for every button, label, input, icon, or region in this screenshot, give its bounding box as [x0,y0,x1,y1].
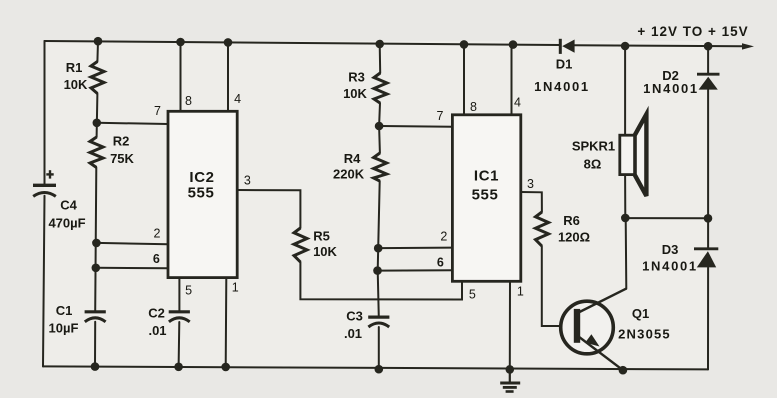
capacitor C1 [85,312,106,322]
wire: D3 branch lower to bottom rail [707,268,709,370]
wire: IC2 pin 4 [227,42,229,111]
node: IC1 pin 2 junction [374,244,383,253]
node: bottom rail at C3 [375,365,384,374]
node: top rail at D2 [704,42,713,51]
wire: IC2 pin 6 [96,267,168,270]
svg-text:1: 1 [232,281,239,295]
svg-text:R3: R3 [348,70,365,85]
node: speaker bottom / collector [621,214,630,223]
svg-text:D3: D3 [662,242,679,257]
wire: left rail lower [43,196,45,367]
svg-text:4: 4 [234,92,241,106]
speaker SPKR1 [620,114,647,196]
node: IC2 pin 6 junction [92,264,101,273]
svg-text:R1: R1 [66,60,83,75]
svg-text:7: 7 [437,109,444,123]
wire: IC2 pin 3 to R5 top [237,190,300,228]
svg-text:120Ω: 120Ω [558,230,590,245]
svg-text:C3: C3 [346,309,363,324]
svg-text:R5: R5 [313,229,330,244]
node: top rail at IC1 pin 4 [509,40,518,49]
svg-text:1N4001: 1N4001 [534,79,590,94]
svg-text:.01: .01 [344,326,362,341]
transistor Q1 2N3055 [561,289,627,370]
node: top rail at IC1 pin 8 [460,40,469,49]
op IC2 555 timer body [168,111,237,277]
wire: speaker branch upper [624,46,626,136]
resistor R3 [374,73,387,103]
node: bottom rail at ground [506,365,515,374]
wire: D2 branch upper [707,46,709,74]
svg-text:6: 6 [153,252,160,266]
svg-text:R2: R2 [113,133,130,148]
svg-text:2N3055: 2N3055 [618,327,671,342]
wire: speaker node to D2/D3 rail [625,217,708,219]
svg-text:C1: C1 [56,303,73,318]
svg-text:8: 8 [470,100,477,114]
svg-text:3: 3 [527,177,534,191]
node: D2/D3 junction [704,214,713,223]
svg-text:3: 3 [244,174,251,188]
svg-text:R4: R4 [344,151,361,166]
svg-text:C4: C4 [60,198,77,213]
svg-text:10K: 10K [313,244,337,259]
svg-text:1N4001: 1N4001 [643,81,699,96]
op IC1 555 timer body [452,115,520,281]
resistor R1 [91,62,104,94]
wire: IC1 pin 1 [509,281,511,369]
svg-text:1: 1 [517,285,524,299]
svg-text:D1: D1 [556,57,573,72]
svg-text:555: 555 [472,187,499,204]
wire: top supply rail (right of D1) [575,45,743,46]
svg-text:.01: .01 [148,323,166,338]
svg-text:8: 8 [185,94,192,108]
wire: IC1 pin 7 [379,125,452,128]
wire: IC1 pin 3 to R6 top [521,192,542,212]
resistor R5 [294,228,307,262]
svg-text:C2: C2 [148,306,165,321]
ground symbol [500,369,520,391]
capacitor C3 [368,317,389,327]
wire: IC2 pin 8 [180,42,182,112]
svg-text:10K: 10K [343,86,367,101]
diode D3 [694,249,718,268]
node: top rail at R3 [375,40,384,49]
svg-text:2: 2 [154,227,161,241]
svg-text:75K: 75K [110,151,134,166]
svg-text:R6: R6 [563,213,580,228]
node: top rail at R1 [94,37,103,46]
wire: R1/R2/C1 branch segments [96,41,99,61]
wire: IC1 pin 6 [378,269,453,271]
svg-text:10K: 10K [64,77,88,92]
svg-text:8Ω: 8Ω [584,157,602,172]
svg-text:IC2: IC2 [189,169,214,186]
svg-text:IC1: IC1 [474,168,499,185]
svg-text:555: 555 [188,185,215,202]
capacitor C4 (electrolytic) [33,170,56,196]
node: bottom rail at C1 [91,362,100,371]
node: IC1 pin 6 junction [373,266,382,275]
node: IC2 pin 2 junction [92,239,101,248]
wire: IC2 pin 1 [225,278,228,367]
wire: R5 bottom to IC1 pin 5 [300,262,462,300]
node: top rail at speaker [621,42,630,51]
wire: speaker branch lower [624,174,626,218]
svg-text:1N4001: 1N4001 [642,259,698,274]
wire: IC2 pin 7 [97,123,168,124]
node: top rail at IC2 pin 4 [224,38,233,47]
wire: IC1 pin 8 [463,44,465,115]
svg-text:6: 6 [437,255,444,269]
wire: IC2 pin 2 [96,243,168,244]
svg-text:220K: 220K [333,167,365,182]
node: R3/R4 junction pin7 [375,122,384,131]
node: R1/R2 junction pin7 [93,119,102,128]
svg-text:5: 5 [469,288,476,302]
node: bottom rail at IC2 pin 1 [221,363,230,372]
wire: D2 branch lower [707,90,709,218]
svg-text:SPKR1: SPKR1 [572,139,615,154]
node: top rail at IC2 pin 8 [176,38,185,47]
wire: bottom ground rail [43,366,708,369]
node: bottom rail at C2 [174,363,183,372]
wire: IC2 pin 5 / C2 branch [178,278,180,312]
supply arrow head [742,43,754,49]
node: bottom rail at emitter [619,366,628,375]
wire: R3/R4/C3 branch segments [379,44,382,73]
wire: left rail upper [44,41,46,185]
wire: top supply rail (left of D1) [45,41,561,45]
svg-text:7: 7 [154,104,161,118]
wire: IC1 pin 2 [378,247,452,250]
svg-text:+ 12V TO + 15V: + 12V TO + 15V [637,24,748,39]
wire: IC1 pin 4 [511,45,513,115]
svg-text:Q1: Q1 [632,306,649,321]
svg-text:470µF: 470µF [48,216,85,231]
wire: Q1 collector vertical [625,218,628,289]
resistor R4 [374,153,387,181]
svg-text:2: 2 [440,230,447,244]
svg-text:10µF: 10µF [49,321,79,336]
wire: D3 branch upper [707,218,709,249]
svg-text:5: 5 [185,284,192,298]
resistor R6 [536,212,549,246]
wire: R6 bottom to Q1 base [542,246,574,326]
capacitor C2 [169,312,190,322]
resistor R2 [90,137,103,167]
diode D1 [560,39,574,54]
diode D2 [697,74,720,89]
svg-text:4: 4 [514,96,521,110]
